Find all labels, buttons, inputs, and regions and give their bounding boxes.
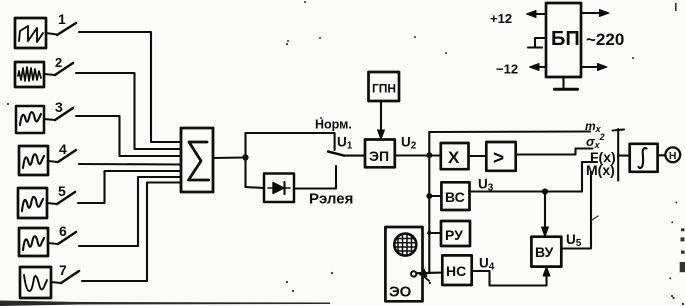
generator G3 (sine source box) [16, 106, 44, 133]
wire from switch 4 to summator [79, 163, 181, 166]
switch S10 (measurement selector common bar) [613, 129, 625, 181]
wire selector to integrator [618, 155, 630, 157]
svg-text:Рэлея: Рэлея [309, 191, 353, 208]
wire bus to RU [429, 232, 441, 234]
power supply BP [546, 3, 581, 77]
svg-text:ЭП: ЭП [369, 148, 389, 164]
ground left of BP [528, 38, 546, 48]
svg-text:Н: Н [669, 150, 677, 162]
meter P1 [665, 147, 680, 162]
switch S6 [48, 232, 76, 244]
node A (junction dot) [242, 154, 248, 160]
svg-text:7: 7 [59, 262, 67, 278]
svg-text:ВУ: ВУ [535, 244, 554, 260]
svg-text:БП: БП [551, 28, 580, 50]
generator G4 (sine source box) [19, 146, 48, 175]
switch S1 [46, 23, 76, 35]
wire from switch 3 to summator [76, 116, 181, 156]
wire bus vertical [428, 132, 430, 273]
node D (junction on U3 line) [542, 188, 548, 194]
wire 220V input top with arrow [581, 10, 609, 17]
block NS [442, 255, 471, 285]
wire bus to VS [429, 195, 441, 197]
wire from switch 5 to summator [78, 171, 181, 203]
scan artifact bottom edge [0, 301, 330, 306]
svg-text:2: 2 [55, 55, 62, 70]
wire bus to mx contact [429, 130, 590, 133]
wire 220V input bottom with arrow [581, 64, 607, 71]
generator G1 (sawtooth source box) [15, 18, 46, 48]
wire averager to sigma-x2 contact [516, 149, 593, 155]
switch S4 [48, 150, 76, 162]
svg-text:НС: НС [446, 263, 466, 279]
switch S2 [44, 63, 73, 75]
svg-text:1: 1 [58, 11, 66, 27]
block A1 (averager '>') [486, 142, 515, 171]
svg-text:−12: −12 [496, 62, 518, 77]
svg-text:ВС: ВС [445, 189, 465, 205]
svg-text:ЭО: ЭО [389, 284, 412, 301]
svg-text:5: 5 [58, 183, 66, 199]
node E (junction dot for RU) [427, 231, 431, 235]
wire EP to X block (node B crossing) [395, 154, 441, 156]
svg-text:ГПН: ГПН [372, 82, 396, 96]
wire U4 from NS to VU bottom with arrow [472, 267, 550, 286]
wire -12 output with arrow [530, 64, 547, 71]
oscilloscope EO [385, 227, 422, 301]
summator U1 (sigma block) [181, 128, 213, 192]
detector VD1 (Rayleigh diode box) [264, 174, 294, 203]
svg-text:6: 6 [59, 223, 67, 239]
block VU [531, 237, 561, 267]
block RU [441, 221, 470, 246]
svg-text:Норм.: Норм. [315, 118, 352, 132]
node C (junction dot for VS) [426, 193, 432, 199]
block integrator [630, 144, 658, 172]
switch S5 [47, 192, 75, 204]
ground below BP [555, 77, 578, 89]
wire summator output to node A [213, 156, 246, 159]
wire switch to EP block [344, 155, 365, 157]
generator G2 (noise source box) [15, 62, 44, 87]
svg-text:+12: +12 [490, 11, 512, 26]
wire node D down to VU with arrow [542, 192, 549, 237]
svg-text:X: X [448, 148, 460, 167]
svg-text:>: > [493, 148, 504, 169]
wire integrator to meter [658, 154, 666, 156]
svg-text:M(x): M(x) [586, 162, 615, 178]
wire +12 output with arrow [527, 11, 547, 18]
block X (squarer) [441, 143, 469, 169]
switch S9 (EO input with arrow blade) [411, 270, 431, 285]
wire U5 from VU to M(x) contact [561, 172, 591, 249]
wire from switch 1 to summator [79, 32, 181, 142]
generator GPN (ramp generator block) [369, 72, 400, 101]
svg-text:4: 4 [59, 141, 67, 157]
wire from switch 7 to summator [82, 183, 181, 282]
switch S3 [44, 108, 73, 120]
wire from switch 2 to summator [76, 73, 181, 149]
generator G7 (wave source box) [20, 267, 51, 298]
switch S7 [51, 271, 79, 283]
svg-text:3: 3 [55, 99, 63, 115]
switch S8 (Norm/Rayleigh selector blade) [328, 152, 344, 156]
wire Rayleigh detector to switch contact [294, 166, 336, 189]
wire node A to Rayleigh detector [246, 187, 265, 188]
wire from switch 6 to summator [79, 177, 181, 246]
svg-text:РУ: РУ [445, 227, 463, 243]
wire bus to NS [416, 272, 442, 275]
block EP (follower) [365, 140, 395, 168]
wire node A to Norm contact [246, 133, 335, 150]
svg-text:~220: ~220 [586, 30, 624, 49]
block VS [441, 182, 469, 210]
wire U3 from VS to F(x) contact [470, 162, 598, 192]
wire X to comparator [469, 155, 487, 157]
node B (junction dot on bus) [426, 152, 432, 158]
wire GPN to EP with arrow [378, 101, 385, 140]
wire node A branch vertical [244, 133, 246, 187]
generator G5 (sine source box) [18, 188, 47, 218]
generator G6 (sine source box) [19, 228, 48, 256]
